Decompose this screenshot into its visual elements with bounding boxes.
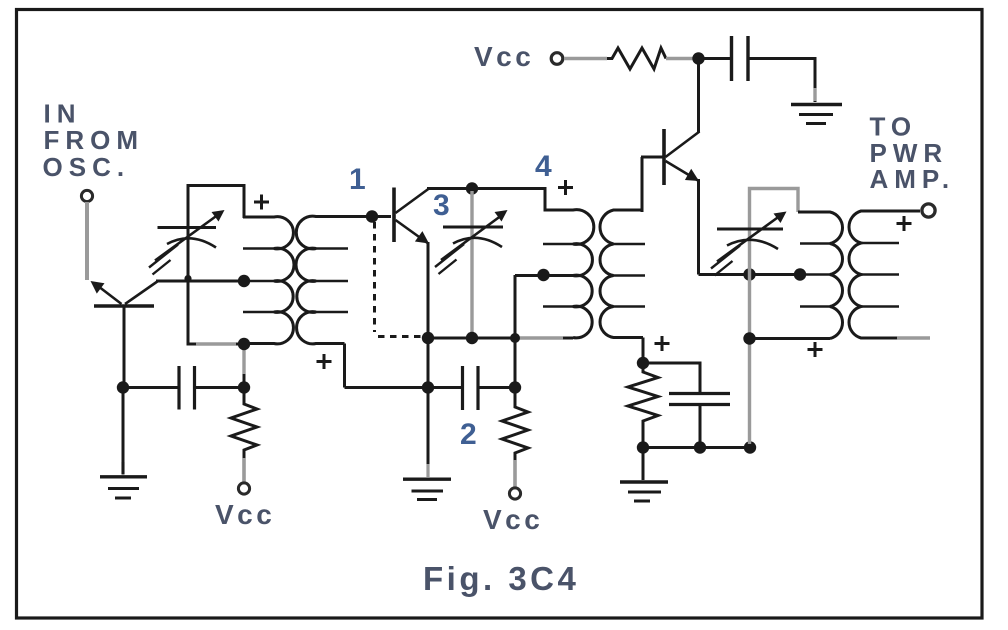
transformer T1 primary coil (243, 217, 294, 344)
wire node to C4 (699, 57, 731, 60)
wire bias node to C3 (643, 363, 700, 393)
transistor Q2 (394, 188, 429, 244)
svg-text:Vcc: Vcc (483, 504, 543, 535)
dashed link base to emitter return (375, 222, 422, 337)
node small dot at varicap stem crossing (184, 275, 191, 282)
wire Vcc to R4 (gray) (564, 57, 607, 61)
wire bias rail stage 2 (345, 386, 464, 389)
wire T3 primary bottom (750, 337, 831, 340)
junction bias node (637, 357, 649, 369)
variable capacitor VC1 branch wires (187, 184, 246, 346)
wire Q2 collector to T2 primary top (427, 187, 547, 190)
wire bias ground rail (643, 446, 750, 449)
wire T2 secondary bottom to bias node (642, 338, 645, 365)
resistor R2 (502, 388, 528, 461)
junction VC2 bottom (466, 332, 478, 344)
transistor Q3 (664, 129, 700, 185)
ground stage 2 (403, 464, 451, 500)
T3 secondary taps (861, 243, 899, 307)
variable capacitor VC1 (149, 210, 225, 275)
wire T1 secondary bottom drop (343, 344, 346, 388)
wire T2 primary tap drop (515, 275, 573, 388)
T3 primary taps (800, 244, 830, 307)
junction C3 bottom (694, 441, 706, 453)
wire T3 secondary bottom tail (gray) (897, 336, 930, 339)
junction rail/tap drop (510, 333, 520, 343)
capacitor C3 (669, 394, 730, 405)
ground stage 3 (620, 448, 668, 502)
T2 primary taps (543, 244, 573, 307)
wire C4 to ground 4 (748, 59, 815, 103)
T2 secondary taps (614, 244, 646, 307)
junction T1 primary bottom (238, 338, 250, 350)
junction R1 top (238, 381, 250, 393)
variable capacitor VC2 (435, 210, 508, 274)
junction T1 primary tap (238, 275, 250, 287)
resistor R3 (628, 363, 658, 448)
junction emitter / bias rail (422, 381, 434, 393)
wire R2 to Vcc (gray) (513, 460, 517, 487)
svg-text:4: 4 (535, 150, 552, 183)
junction node 1 (366, 210, 378, 222)
phase mark + T2 primary top (558, 180, 573, 195)
wire Q3 base to T2 secondary top (641, 157, 664, 212)
wire stage1 base/ground rail to capacitor C1 (123, 386, 179, 389)
resistor R4 (607, 48, 666, 69)
svg-text:3: 3 (433, 189, 450, 222)
junction R3 bottom (637, 441, 649, 453)
svg-text:Vcc: Vcc (215, 499, 275, 530)
phase mark + T2 secondary bottom (655, 336, 670, 351)
wire T1 primary bottom to R1 node (243, 344, 246, 390)
wire R1 to Vcc (gray) (242, 458, 246, 482)
capacitor C2 (463, 366, 479, 410)
wire Q1 base down to C1 node (123, 306, 126, 389)
T1 primary taps (243, 249, 274, 313)
capacitor C1 (179, 366, 195, 410)
phase mark + T1 secondary bottom (317, 354, 332, 369)
wire C1 to R1 node (195, 386, 245, 389)
transformer T3 secondary coil (849, 211, 920, 338)
phase mark + output (897, 216, 912, 231)
wire R4 to node (gray) (666, 57, 693, 61)
wire Q3 collector up to node (697, 59, 700, 133)
gray segment of rail (517, 336, 563, 339)
wire ground rail y338 (428, 337, 573, 340)
ground stage 1 (100, 388, 147, 499)
Vcc terminal stage 1 (238, 483, 249, 494)
junction Q3 collector node (692, 52, 704, 64)
svg-text:Fig. 3C4: Fig. 3C4 (423, 560, 579, 597)
junction VC3 / T3 primary bottom (743, 332, 755, 344)
variable capacitor VC3 stem and loop (gray) (750, 189, 799, 445)
wire C3 bottom to rail (699, 405, 702, 448)
gray segment (242, 348, 245, 374)
transistor Q1 (91, 281, 159, 306)
svg-text:2: 2 (460, 418, 477, 451)
phase mark + T3 primary bottom (808, 342, 823, 357)
junction rail end (744, 441, 756, 453)
svg-text:Vcc: Vcc (474, 41, 534, 72)
wire Q2 emitter down to ground rail (427, 242, 430, 477)
T1 secondary taps (316, 249, 348, 313)
transformer T2 secondary coil (600, 210, 643, 338)
wire C2 to R2 node (478, 386, 515, 389)
junction T3 primary tap (794, 268, 806, 280)
capacitor C4 (732, 36, 749, 81)
wire input (gray) from terminal to Q1 emitter (85, 202, 89, 280)
variable capacitor VC3 (711, 212, 787, 276)
junction R2 top (509, 381, 521, 393)
Vcc terminal stage 2 (509, 488, 520, 499)
input terminal (81, 190, 92, 201)
wire Q1 collector to T1 primary tap (156, 280, 246, 283)
svg-text:1: 1 (349, 163, 366, 196)
resistor R1 (231, 388, 257, 459)
junction VC2 top (466, 182, 478, 194)
output terminal (922, 204, 935, 217)
junction T2 tap (537, 269, 549, 281)
transformer T2 primary coil (545, 188, 594, 338)
ground 4 (791, 105, 842, 124)
gray tail (813, 88, 816, 101)
phase mark + T1 primary top (254, 195, 269, 210)
transformer T1 secondary coil (296, 216, 391, 344)
junction VC3 stem / emitter wire (743, 268, 755, 280)
Vcc terminal top (551, 53, 563, 65)
variable capacitor VC2 stem (gray) (470, 191, 473, 335)
junction emitter / rail (422, 332, 434, 344)
junction Q1 base / ground (117, 381, 129, 393)
wire Q3 emitter down and to T3 primary tap (699, 179, 802, 275)
transformer T3 primary coil (798, 212, 843, 339)
